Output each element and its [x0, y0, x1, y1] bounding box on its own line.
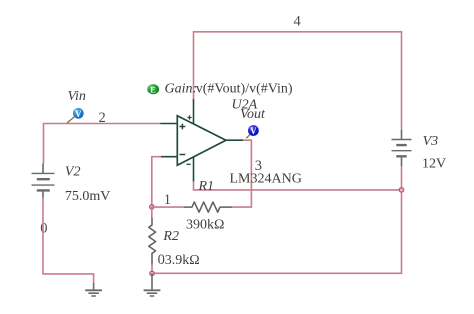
R2 value 3.9k [165, 253, 200, 268]
node 3 label [255, 158, 262, 174]
wire node 1 to R1 [152, 206, 184, 208]
svg-text:v(#Vout)/v(#Vin): v(#Vout)/v(#Vin) [196, 82, 293, 97]
wire V2 minus to ground [43, 198, 94, 284]
node 1 label [164, 192, 171, 208]
junction at V3 minus node [399, 188, 403, 192]
svg-text:E: E [150, 85, 156, 95]
junction node 1 [150, 205, 154, 209]
ground (bottom rail) [144, 273, 161, 296]
wire inverting input to node 1 [152, 157, 161, 207]
svg-text:R1: R1 [198, 179, 215, 194]
svg-text:4: 4 [294, 14, 302, 30]
svg-text:V: V [75, 109, 82, 119]
resistor R1 [184, 202, 232, 212]
wire R2 to bottom rail [151, 265, 153, 274]
svg-text:Gain:: Gain: [165, 82, 198, 97]
R1 value 390k [186, 218, 224, 233]
svg-text:0: 0 [158, 252, 165, 268]
svg-text:R2: R2 [162, 229, 179, 244]
svg-text:75.0mV: 75.0mV [65, 189, 111, 204]
ground (under V2 branch) [85, 283, 102, 296]
battery V3 [392, 130, 412, 166]
svg-text:V2: V2 [65, 165, 81, 180]
battery V2 [32, 164, 55, 198]
svg-text:390kΩ: 390kΩ [186, 218, 224, 233]
svg-text:3.9kΩ: 3.9kΩ [165, 253, 200, 268]
svg-text:Vout: Vout [240, 107, 266, 122]
node 4 label [294, 14, 302, 30]
V3 reference label [423, 134, 439, 149]
svg-text:1: 1 [164, 192, 171, 208]
resistor R2 [149, 218, 156, 265]
wire VEE rail (op-amp negative supply to node 0) [194, 181, 402, 190]
wire Vin net (node 2) [44, 124, 161, 164]
U2A reference label [232, 98, 258, 113]
svg-text:Vin: Vin [68, 89, 86, 104]
op-amp U2A [160, 99, 243, 181]
R1 reference label [198, 179, 215, 194]
V2 reference label [65, 165, 81, 180]
node 0 label (V2 minus) [40, 220, 47, 236]
op-amp part number LM324ANG [230, 172, 302, 187]
wire output net (node 3) [232, 140, 251, 207]
probe Vin [67, 108, 84, 123]
probe Vin label [68, 89, 86, 104]
V2 value 75.0mV [65, 189, 111, 204]
svg-text:2: 2 [99, 110, 106, 126]
node 2 label [99, 110, 106, 126]
probe Vout label [240, 107, 266, 122]
svg-text:V3: V3 [423, 134, 439, 149]
node 0 label (bottom rail) [158, 252, 165, 268]
svg-text:0: 0 [40, 220, 47, 236]
wire net 4 (V+ supply, top) [194, 32, 402, 130]
wire node 1 down to R2 [151, 207, 153, 219]
svg-text:LM324ANG: LM324ANG [230, 172, 302, 187]
svg-text:V: V [250, 126, 257, 136]
wire V3 minus to bottom rail [152, 166, 402, 273]
junction bottom rail node 0 [150, 271, 154, 275]
probe Gain expression [147, 82, 293, 97]
svg-text:12V: 12V [422, 157, 446, 172]
R2 reference label [162, 229, 179, 244]
probe Vout [246, 125, 259, 138]
V3 value 12V [422, 157, 446, 172]
